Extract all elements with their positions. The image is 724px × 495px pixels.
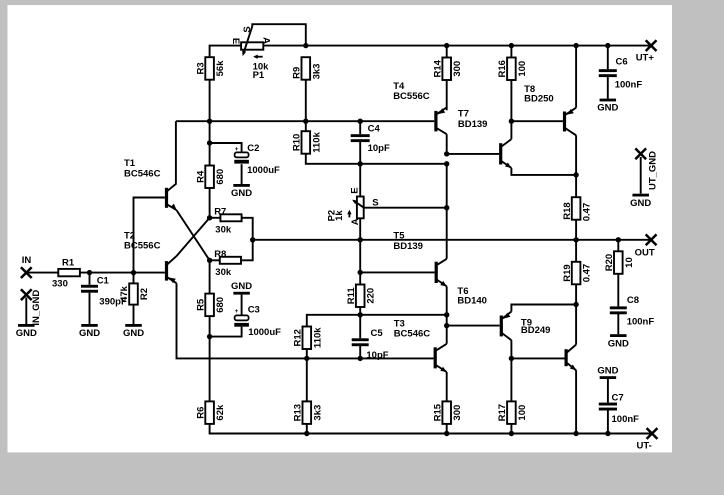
wire R17 bottom: [510, 424, 512, 434]
node bot-T9e: [573, 431, 578, 436]
svg-text:GND: GND: [597, 365, 618, 376]
wire T8 base: [511, 120, 563, 122]
wire OUT rail: [253, 239, 651, 241]
svg-text:P1: P1: [253, 70, 265, 81]
wire T7 emitter to R18 node: [511, 168, 576, 175]
resistor R8 30k: [214, 249, 241, 278]
svg-text:R16: R16: [497, 60, 508, 77]
node A-R3: [207, 119, 212, 124]
wire T3 emitter to R15: [446, 372, 448, 401]
svg-text:30k: 30k: [215, 224, 232, 235]
wire IN to R1: [26, 272, 58, 274]
svg-text:C8: C8: [627, 295, 639, 306]
node S-T5c: [444, 205, 449, 210]
svg-text:IN: IN: [22, 255, 32, 266]
svg-text:R8: R8: [214, 249, 226, 260]
wire R7 right elbow: [242, 218, 253, 260]
wire T2 emitter drop: [177, 283, 434, 358]
svg-text:BC556C: BC556C: [393, 91, 430, 102]
svg-text:R9: R9: [292, 67, 303, 79]
wire T9 base: [511, 357, 564, 359]
svg-text:IN_GND: IN_GND: [31, 290, 42, 326]
capacitor C2 1000uF: [234, 143, 280, 176]
wire C2 to ground: [241, 164, 243, 184]
ground C6: [597, 99, 618, 114]
svg-text:100: 100: [517, 405, 528, 421]
wire T4C node to T7 base: [447, 153, 499, 155]
transistor T4 BC556C: [393, 81, 447, 134]
wire R11 bottom: [359, 304, 361, 315]
wire R7 left: [210, 217, 221, 219]
node 358-R12R13: [304, 356, 309, 361]
svg-text:30k: 30k: [215, 267, 232, 278]
wire T5 emitter down: [446, 286, 448, 314]
wire IN_GND drop: [25, 298, 27, 325]
wire R19 bottom: [575, 283, 577, 304]
wire C8 to ground: [617, 314, 619, 335]
wire C6 top: [607, 46, 609, 70]
node rail-R14: [444, 43, 449, 48]
resistor R10 110k: [292, 131, 323, 154]
svg-text:100nF: 100nF: [615, 79, 643, 90]
resistor R4 680: [195, 166, 226, 189]
svg-text:UT-: UT-: [637, 440, 652, 451]
svg-text:62k: 62k: [215, 404, 226, 421]
wire T6 collector down: [510, 340, 512, 358]
svg-text:BD139: BD139: [458, 119, 488, 130]
wire R20 to C8: [617, 273, 619, 307]
node R10-C4: [358, 161, 363, 166]
svg-text:R5: R5: [195, 298, 206, 311]
node bot-R15: [444, 431, 449, 436]
wire R5 top: [209, 260, 211, 293]
node A-R9R10: [303, 119, 308, 124]
wire P2 top E: [359, 164, 361, 197]
svg-text:1k: 1k: [334, 210, 345, 221]
svg-text:100: 100: [517, 61, 528, 77]
capacitor C1 390pF: [81, 276, 127, 308]
terminal IN_GND: [21, 289, 42, 325]
svg-text:220: 220: [366, 288, 377, 304]
wire R3 bottom to node A: [209, 80, 211, 122]
svg-text:R3: R3: [195, 62, 206, 74]
node C3 tap: [207, 334, 212, 339]
resistor R20 10: [604, 251, 635, 273]
wire C7 ground to cap: [607, 379, 609, 403]
resistor R18 0.47: [562, 197, 593, 221]
potentiometer P2 1k: [326, 187, 378, 225]
svg-text:300: 300: [452, 61, 463, 77]
svg-text:R6: R6: [195, 407, 206, 419]
wire T8 collector down: [575, 135, 577, 175]
svg-text:BC556C: BC556C: [124, 240, 161, 251]
svg-text:R11: R11: [346, 287, 357, 305]
svg-text:BD139: BD139: [393, 241, 423, 252]
wire R20 top: [617, 240, 619, 252]
resistor R15 300: [432, 401, 463, 424]
svg-text:BD249: BD249: [521, 325, 551, 336]
wire R2 down: [133, 273, 135, 284]
node out-R20: [616, 237, 621, 242]
svg-text:+: +: [235, 308, 239, 315]
node rail-C6: [605, 43, 610, 48]
resistor R16 100: [497, 58, 528, 81]
wire R6 bottom elbow: [210, 424, 652, 434]
svg-text:BD250: BD250: [524, 93, 554, 104]
wire R11 top: [359, 272, 361, 284]
svg-text:C4: C4: [368, 124, 381, 135]
wire T5E to T3C segment: [446, 315, 448, 326]
svg-text:T1: T1: [124, 158, 136, 169]
ground C1: [79, 324, 100, 339]
wire T6 base: [447, 325, 500, 327]
svg-text:680: 680: [215, 297, 226, 313]
transistor T7 BD139: [458, 109, 512, 168]
wire T6 emitter to R19 node: [511, 305, 576, 312]
svg-text:10pF: 10pF: [368, 143, 390, 154]
wire C4 top: [359, 121, 361, 134]
wire T1 collector: [175, 121, 177, 183]
svg-text:R1: R1: [62, 258, 75, 269]
svg-text:GND: GND: [123, 328, 144, 339]
svg-text:GND: GND: [597, 103, 618, 114]
svg-text:E: E: [350, 187, 361, 193]
svg-text:OUT: OUT: [635, 248, 655, 259]
node rail-R9: [303, 43, 308, 48]
resistor R5 680: [195, 294, 226, 317]
svg-text:1000uF: 1000uF: [247, 165, 280, 176]
node R7-left: [207, 215, 212, 220]
svg-text:BC546C: BC546C: [394, 328, 431, 339]
svg-text:GND: GND: [231, 281, 252, 292]
terminal IN: [21, 255, 32, 278]
wire R1 to T2 base: [80, 272, 164, 274]
resistor R3 56k: [195, 57, 226, 79]
node out-R18R19: [573, 237, 578, 242]
svg-text:0.47: 0.47: [582, 264, 593, 283]
svg-text:1000uF: 1000uF: [248, 327, 281, 338]
svg-text:R4: R4: [195, 170, 206, 183]
node mid-R11C5: [358, 312, 363, 317]
svg-text:GND: GND: [79, 328, 100, 339]
wire R2 to ground: [133, 305, 135, 324]
svg-text:680: 680: [215, 169, 226, 185]
wire C2 tap: [210, 143, 242, 152]
svg-text:+: +: [235, 146, 239, 153]
svg-text:UT+: UT+: [636, 53, 655, 64]
wire P2 S horizontal: [364, 207, 447, 209]
node T7e-R18: [573, 172, 578, 177]
wire mid node horizontal: [307, 315, 447, 327]
ground C2: [231, 184, 252, 199]
svg-text:R17: R17: [497, 404, 508, 421]
svg-text:BC546C: BC546C: [124, 168, 161, 179]
node rail-T8e: [573, 43, 578, 48]
capacitor C8 100nF: [610, 295, 655, 328]
wire T8 emitter up: [575, 46, 577, 108]
wire R4 top: [209, 121, 211, 165]
svg-text:R14: R14: [432, 59, 443, 77]
svg-text:300: 300: [452, 405, 463, 421]
node R19-T6e: [573, 302, 578, 307]
transistor T3 BC546C: [394, 318, 447, 372]
wire C6 to ground: [607, 75, 609, 99]
svg-text:C5: C5: [371, 328, 384, 339]
wire C1 to ground: [89, 293, 91, 324]
svg-text:10: 10: [624, 257, 635, 268]
terminal OUT: [635, 234, 657, 258]
svg-text:A: A: [350, 218, 361, 225]
resistor R12 110k: [293, 327, 324, 350]
svg-text:GND: GND: [231, 188, 252, 199]
wire R10 bottom to C4/T4 node: [306, 154, 447, 164]
wire T9 emitter down: [575, 370, 577, 433]
svg-text:UT_GND: UT_GND: [648, 151, 659, 190]
resistor R11 220: [346, 285, 377, 308]
svg-text:3k3: 3k3: [311, 64, 322, 80]
svg-text:C3: C3: [248, 305, 260, 316]
ground R2: [123, 324, 144, 339]
svg-text:390pF: 390pF: [99, 297, 127, 308]
wire R4 bottom: [209, 187, 211, 218]
wire R16 bottom to T7 collector: [510, 79, 512, 140]
resistor R13 3k3: [293, 401, 324, 424]
resistor R1 330: [52, 258, 80, 290]
svg-text:10pF: 10pF: [366, 350, 388, 361]
node bot-C7: [605, 431, 610, 436]
capacitor C4 10pF: [351, 124, 390, 154]
ground C3: [231, 281, 252, 295]
svg-text:A: A: [260, 37, 271, 44]
wire T5 collector vertical: [446, 208, 448, 259]
wire C1 down: [89, 273, 91, 285]
wire C4 bottom: [359, 140, 361, 164]
node bot-R13: [304, 431, 309, 436]
svg-text:R19: R19: [562, 264, 573, 281]
node T5b-R11: [358, 270, 363, 275]
ground C7: [597, 365, 618, 379]
wire R19 top: [575, 240, 577, 262]
node 358-C5: [358, 356, 363, 361]
svg-text:C7: C7: [612, 392, 624, 403]
wire R16 top: [510, 46, 512, 58]
resistor R14 300: [432, 58, 463, 81]
svg-text:0.47: 0.47: [582, 203, 593, 222]
capacitor C7 100nF: [599, 392, 639, 425]
node T6b-T3c: [444, 323, 449, 328]
wire UT_GND drop: [640, 157, 642, 194]
wire R19B to T9 collector: [575, 305, 577, 345]
node T9b-R17: [509, 356, 514, 361]
node in-C1: [87, 270, 92, 275]
capacitor C3 1000uF: [234, 305, 281, 338]
wire R9 bottom: [305, 80, 307, 122]
node R16-T8b: [509, 119, 514, 124]
wire T3 collector up: [446, 326, 448, 344]
ground IN_GND: [16, 324, 37, 339]
wire C7 bottom: [607, 410, 609, 434]
wire R15 bottom: [446, 424, 448, 434]
ground C8: [608, 334, 629, 349]
terminal UT_GND: [635, 148, 658, 190]
resistor R6 62k: [195, 401, 226, 424]
node bot-R17: [509, 431, 514, 436]
node mid-T5e: [444, 312, 449, 317]
node rail-R16: [509, 43, 514, 48]
potentiometer P1 10k: [230, 26, 272, 81]
svg-text:R13: R13: [293, 404, 304, 421]
terminal UT-: [637, 428, 658, 451]
svg-text:R15: R15: [432, 403, 443, 421]
svg-text:R7: R7: [214, 206, 226, 217]
svg-text:C1: C1: [97, 276, 110, 287]
capacitor C5 10pF: [352, 328, 389, 361]
wire node down to S-wire: [446, 164, 448, 208]
transistor T6 BD140: [457, 286, 511, 340]
wire UT+ top rail: [210, 46, 651, 58]
wire R12 bottom: [306, 349, 308, 359]
svg-text:BD140: BD140: [457, 296, 487, 307]
wire C3 tap: [210, 327, 242, 337]
transistor T8 BD250: [524, 84, 576, 135]
wire R14 top: [446, 46, 448, 58]
svg-text:GND: GND: [630, 198, 651, 209]
wire T1 base: [134, 198, 165, 273]
transistor T2 BC556C: [124, 218, 210, 283]
svg-text:C6: C6: [616, 57, 628, 68]
svg-text:C2: C2: [247, 143, 259, 154]
svg-text:GND: GND: [608, 338, 629, 349]
svg-text:R20: R20: [604, 254, 615, 271]
svg-text:E: E: [230, 38, 241, 44]
wire R17 top: [510, 358, 512, 401]
wire R13 top: [306, 358, 308, 401]
wire T4 collector down: [446, 134, 448, 154]
resistor R19 0.47: [562, 262, 593, 285]
ground UT_GND: [630, 194, 651, 209]
svg-text:56k: 56k: [215, 60, 226, 77]
svg-text:R18: R18: [562, 202, 573, 219]
svg-text:110k: 110k: [312, 327, 323, 348]
resistor R9 3k3: [292, 57, 323, 79]
transistor T9 BD249: [521, 318, 576, 370]
capacitor C6 100nF: [599, 57, 643, 91]
node T4c-T7b: [444, 151, 449, 156]
wire P2A to T5 base node: [359, 240, 361, 273]
resistor R17 100: [497, 401, 528, 424]
wire R18 bottom to OUT rail: [575, 216, 577, 240]
wire P1 wiper-S to rail: [252, 24, 305, 45]
wire R18 top: [575, 175, 577, 197]
svg-text:GND: GND: [16, 328, 37, 339]
svg-text:330: 330: [52, 279, 68, 290]
wire R14 bottom to T4 emitter: [446, 79, 448, 111]
node R7R8-out: [250, 237, 255, 242]
wire node A horizontal: [176, 120, 434, 122]
svg-text:100nF: 100nF: [627, 317, 655, 328]
wire C5 top: [359, 315, 361, 339]
wire P2 bottom A: [359, 218, 361, 240]
svg-text:3k3: 3k3: [312, 405, 323, 421]
wire C3 to ground: [241, 295, 243, 316]
svg-text:110k: 110k: [311, 131, 322, 152]
terminal UT+: [636, 40, 657, 63]
resistor R7 30k: [214, 206, 241, 235]
transistor T1 BC546C: [124, 158, 210, 260]
node out-P2A: [358, 237, 363, 242]
svg-text:R10: R10: [292, 134, 303, 151]
node in-R2: [131, 270, 136, 275]
transistor T5 BD139: [393, 231, 446, 287]
svg-text:R12: R12: [293, 329, 304, 346]
wire R13 bottom: [306, 424, 308, 434]
resistor R2 47k: [119, 283, 150, 304]
wire R5 bottom to R6: [209, 316, 211, 401]
wire T5 base: [360, 271, 434, 273]
node C2 tap: [207, 140, 212, 145]
node R10-T4c: [444, 161, 449, 166]
wire C5 bottom: [359, 344, 361, 358]
node R8-left: [207, 258, 212, 263]
svg-text:S: S: [372, 197, 378, 208]
node A-C4: [358, 119, 363, 124]
svg-text:100nF: 100nF: [612, 414, 640, 425]
svg-text:S: S: [242, 26, 253, 32]
wire R8 left: [210, 259, 221, 261]
svg-text:R2: R2: [139, 288, 150, 300]
wire R10 top: [305, 121, 307, 131]
